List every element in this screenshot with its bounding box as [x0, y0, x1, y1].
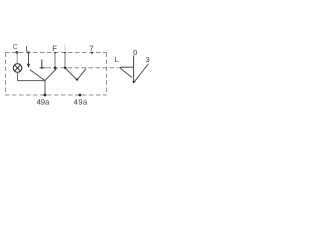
terminal L nub	[27, 52, 30, 54]
svg-text:L: L	[25, 44, 30, 53]
svg-text:49a: 49a	[74, 98, 88, 107]
wire F lead	[54, 53, 56, 68]
lamp circle	[13, 64, 22, 73]
hot wire V apex tip	[75, 79, 78, 82]
terminal C node	[16, 51, 19, 54]
right hot wire	[134, 64, 149, 83]
svg-text:C: C	[13, 44, 18, 51]
terminal 4 nub	[64, 52, 67, 54]
terminal 4 faint lead	[64, 45, 66, 52]
right armature arm	[121, 69, 132, 77]
hot wire V left	[66, 68, 87, 80]
housing dashed box bottom	[5, 94, 107, 96]
right hot wire apex tip	[132, 81, 135, 84]
linkage solid left end	[40, 67, 46, 69]
housing dashed box top	[5, 52, 107, 54]
svg-text:49a: 49a	[37, 97, 50, 106]
armature left contact arm	[30, 68, 57, 80]
wire L lead with down arrow contact	[28, 54, 30, 64]
svg-text:L: L	[115, 55, 119, 64]
terminal 49a node	[44, 94, 47, 97]
linkage junction dots	[41, 67, 43, 69]
wire lamp bottom lead	[17, 72, 19, 80]
terminal F nub	[54, 52, 57, 54]
wire lamp horizontal to junction	[18, 80, 46, 82]
svg-text:7: 7	[89, 44, 93, 53]
svg-text:3: 3	[146, 55, 150, 64]
terminal 49a right node	[79, 94, 82, 97]
lamp cross	[15, 65, 21, 71]
wire terminal4 lead	[64, 53, 66, 68]
linkage dashed line	[40, 67, 119, 69]
housing dashed box right	[106, 53, 108, 93]
wire down to terminal 49a	[44, 81, 46, 95]
fixed contact post	[41, 60, 43, 69]
linkage end arrowhead	[119, 67, 122, 69]
housing dashed box left	[5, 53, 7, 96]
terminal 5 nub	[91, 52, 94, 54]
wire C lead down to lamp	[16, 53, 18, 64]
fixed contact bar right	[122, 66, 134, 68]
svg-text:F: F	[52, 44, 57, 53]
right post	[133, 56, 135, 83]
